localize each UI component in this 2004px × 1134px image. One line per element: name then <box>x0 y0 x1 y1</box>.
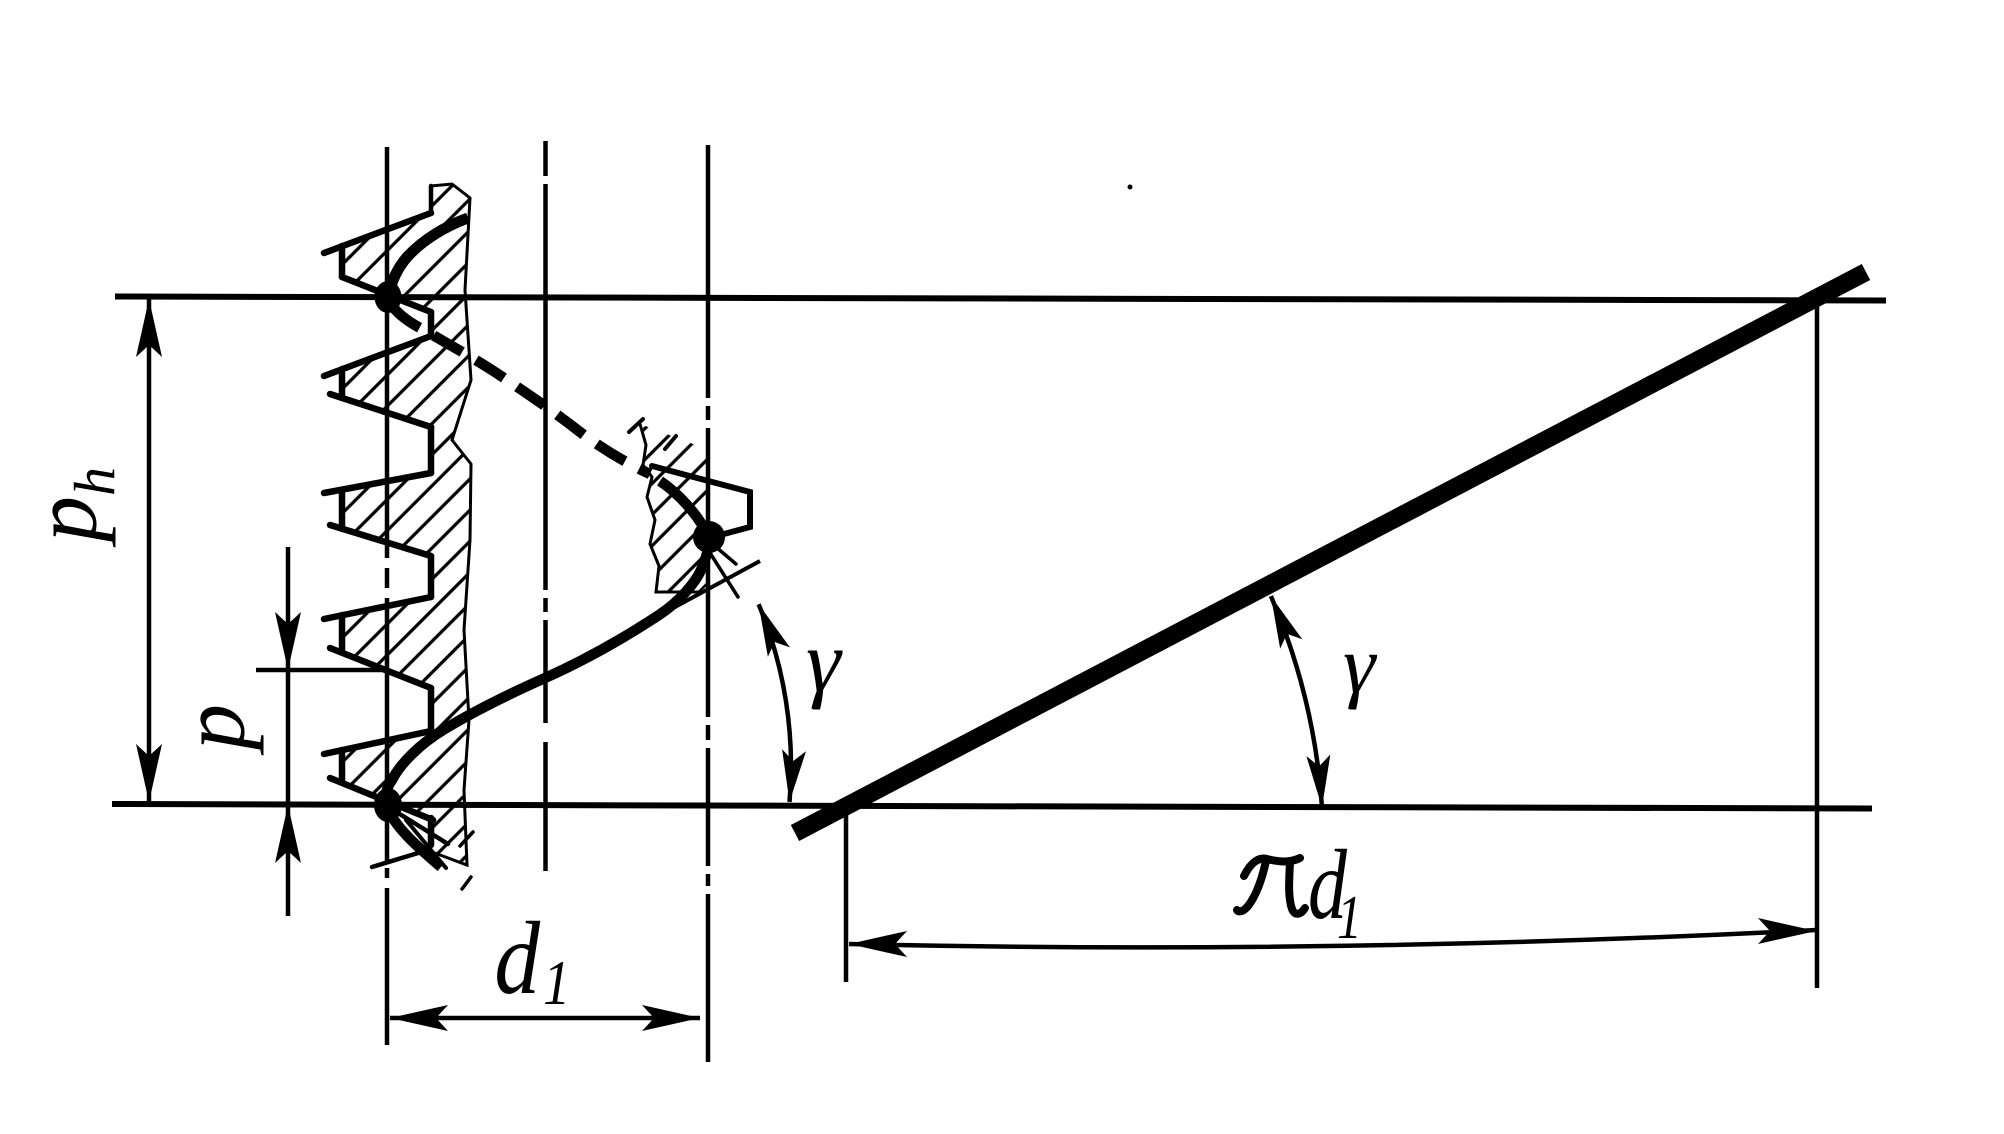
right tooth fragment (far side) hatched <box>640 424 709 592</box>
tooth T4 flanks <box>324 597 431 619</box>
root R4 <box>428 688 435 731</box>
extension line left for pi*d1 <box>844 808 849 982</box>
thread profile outline (teeth with overshooting flanks) <box>324 186 433 845</box>
tangent line to helix at pitch point <box>651 561 760 620</box>
worm axis line x=545.5 <box>543 141 548 871</box>
tick line for p <box>256 668 384 673</box>
label pi d1 : hand-drawn pi <box>1237 858 1305 914</box>
pitch line right x=708 <box>706 145 711 1062</box>
scan speck <box>1128 185 1133 190</box>
small break ticks below band <box>460 832 473 889</box>
root R2 <box>428 427 435 473</box>
dimension p (pitch) <box>286 547 291 916</box>
tooth T1 flanks <box>324 213 431 253</box>
point: helix on right pitch line <box>693 521 725 553</box>
hatched section band of worm thread (left) <box>342 184 471 865</box>
helix front (solid thick S-curve) <box>386 538 709 867</box>
ragged break edge of band <box>431 184 471 865</box>
root R5 <box>428 818 435 845</box>
helix back (dashed thick) <box>390 303 650 474</box>
tooth T5 flanks <box>324 731 431 754</box>
dimension d1 <box>390 1016 700 1021</box>
tooth T3 flanks <box>324 473 431 493</box>
right vertical line of triangle <box>1815 299 1820 988</box>
arc arrowhead top <box>748 600 790 657</box>
small flank/star lines at bottom point <box>372 808 448 868</box>
center line (pitch) x=387 <box>385 147 390 1045</box>
right tooth outline <box>652 466 750 538</box>
lead angle arc gamma (left) <box>759 604 791 802</box>
bottom generator line <box>112 804 1872 809</box>
tooth T2 flanks <box>324 336 431 376</box>
svg-text:γ: γ <box>1343 619 1378 710</box>
root R3 <box>428 556 435 597</box>
svg-text:d: d <box>494 902 541 1017</box>
root R1 <box>428 312 435 336</box>
svg-text:γ: γ <box>806 614 843 711</box>
dimension p_h (lead) <box>147 299 152 802</box>
svg-text:1: 1 <box>543 947 570 1018</box>
development line (unwound helix) <box>795 272 1866 833</box>
point: helix on top generator <box>375 281 402 313</box>
top generator line <box>115 297 1886 301</box>
break hatch ticks above right tooth <box>629 419 676 449</box>
right tooth ragged break edge <box>640 424 700 592</box>
root R0 <box>429 186 434 213</box>
point: helix on bottom generator <box>374 788 402 822</box>
svg-text:1: 1 <box>1337 884 1362 952</box>
dimension pi*d1 <box>849 930 1816 947</box>
small star lines at right point <box>705 545 738 597</box>
svg-text:p: p <box>162 704 264 756</box>
lead angle arc gamma (right) <box>1271 596 1322 807</box>
solid piece of back helix near right point <box>660 481 705 530</box>
helix continuation above top point <box>388 218 468 297</box>
arc arrowhead bottom <box>778 749 806 803</box>
